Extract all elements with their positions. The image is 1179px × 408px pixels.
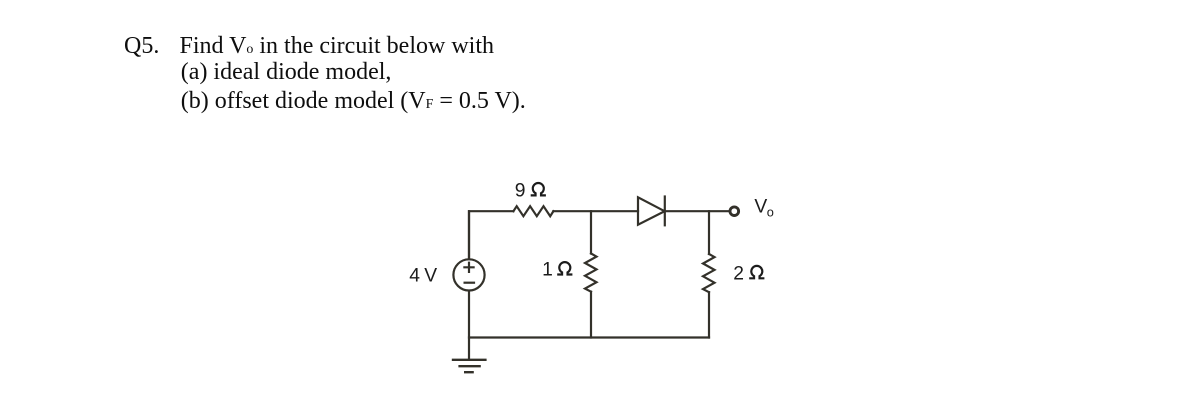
wire node B down to 2-ohm resistor: [708, 211, 710, 254]
resistor R 9-ohm zigzag: [513, 206, 553, 216]
wire node A down to 1-ohm resistor: [590, 211, 592, 253]
wire 1-ohm resistor to bottom rail: [590, 292, 592, 338]
question text line 1: [180, 34, 494, 58]
svg-text:2: 2: [733, 263, 744, 284]
ground bar 3: [465, 371, 472, 373]
wire source bottom lead and ground stem: [468, 291, 470, 359]
diode D1 cathode bar: [664, 197, 666, 226]
svg-text:o: o: [767, 204, 774, 219]
svg-text:9: 9: [515, 181, 526, 202]
resistor R 2-ohm zigzag: [703, 254, 715, 292]
svg-text:1: 1: [542, 260, 553, 281]
wire diode cathode to output terminal: [665, 210, 729, 212]
wire source top lead: [468, 211, 470, 258]
voltage source plus sign: [464, 263, 473, 272]
voltage source minus sign: [465, 282, 474, 284]
wire 2-ohm resistor to bottom rail: [708, 292, 710, 337]
ground bar 1: [453, 359, 485, 361]
svg-text:4: 4: [409, 266, 420, 287]
diode D1 triangle: [638, 197, 665, 224]
wire bottom rail: [469, 336, 709, 338]
svg-text:V: V: [424, 266, 437, 287]
output terminal open circle: [730, 207, 739, 216]
question text line 2: [181, 60, 392, 84]
svg-text:V: V: [754, 196, 767, 217]
wire top-left from corner to 9-ohm resistor: [469, 211, 513, 258]
ground bar 2: [460, 365, 480, 367]
question text line 1 number: [124, 34, 159, 58]
wire top middle from resistor to diode anode: [553, 210, 638, 212]
voltage source V1 circle: [453, 259, 484, 290]
question text line 3: [181, 89, 526, 113]
resistor R 1-ohm zigzag: [585, 254, 597, 292]
